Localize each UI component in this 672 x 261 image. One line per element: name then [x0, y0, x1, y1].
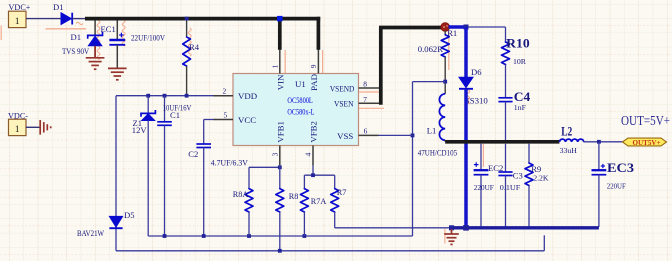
- capacitor C2: [204, 119, 214, 121]
- capacitor C1: [164, 96, 166, 122]
- resistor R8A: [248, 167, 250, 188]
- wire switch node thick blue: [464, 27, 468, 78]
- svg-text:1nF: 1nF: [514, 103, 527, 112]
- node C1 junction: [163, 94, 167, 98]
- svg-text:SS310: SS310: [465, 96, 488, 105]
- svg-text:BAV21W: BAV21W: [77, 229, 104, 238]
- ground at TVS: [94, 46, 96, 58]
- wire R7 to ground: [335, 227, 452, 229]
- svg-text:2: 2: [223, 87, 227, 96]
- node VSS tap junction: [443, 80, 447, 84]
- svg-text:L1: L1: [427, 125, 437, 135]
- wire VDC+ to D1: [26, 18, 61, 20]
- svg-text:VSEN: VSEN: [334, 99, 354, 109]
- diode D5: [109, 216, 122, 227]
- svg-text:R8A: R8A: [233, 190, 249, 199]
- pin 3 VFB1: [279, 146, 281, 166]
- svg-text:7: 7: [363, 95, 367, 104]
- resistor R4: [185, 17, 189, 21]
- node VSS junction: [411, 134, 415, 138]
- svg-text:6: 6: [364, 126, 368, 135]
- pin 4 VFB2: [312, 146, 314, 166]
- svg-text:D6: D6: [471, 67, 482, 77]
- svg-text:D5: D5: [124, 210, 135, 220]
- inductor L1: [439, 94, 445, 140]
- inductor L2: [559, 139, 583, 142]
- node R8 bottom: [278, 249, 282, 253]
- node C1 bottom: [163, 234, 167, 238]
- wire VSS tap: [413, 81, 446, 83]
- pin 8 VSEND: [359, 87, 381, 89]
- svg-text:0.062R: 0.062R: [418, 45, 444, 54]
- svg-text:R10: R10: [506, 37, 530, 51]
- svg-text:VDD: VDD: [238, 91, 257, 101]
- pin 7 VSEN: [359, 102, 381, 104]
- svg-text:OC5800L: OC5800L: [287, 96, 312, 105]
- wire R8A top: [249, 166, 280, 168]
- wire D6 cathode thick blue: [464, 89, 468, 228]
- capacitor EC1: [116, 20, 118, 39]
- svg-text:R7A: R7A: [311, 197, 327, 206]
- zener Z1: [147, 96, 149, 114]
- node ground junction: [449, 225, 454, 230]
- svg-text:VDC+: VDC+: [9, 3, 31, 12]
- compile mask marks: [0, 26, 2, 41]
- TVS diode D1: [94, 20, 96, 35]
- svg-text:VCC: VCC: [238, 115, 256, 125]
- svg-text:R1: R1: [447, 28, 457, 38]
- wire PAD drop: [317, 17, 321, 50]
- svg-text:1: 1: [270, 64, 279, 68]
- wire VSS pin extension: [379, 134, 413, 136]
- port VDC- pin 1: [9, 119, 27, 135]
- node error marker: [441, 23, 450, 32]
- wire D5 branch: [115, 96, 117, 251]
- svg-text:10R: 10R: [513, 57, 527, 66]
- wire bottom rail riser: [543, 235, 545, 251]
- capacitor C3: [505, 144, 507, 172]
- svg-text:U1: U1: [295, 79, 306, 89]
- node EC3 junction: [597, 140, 601, 144]
- port OUT5V+: [623, 138, 667, 146]
- svg-text:R9: R9: [531, 164, 541, 174]
- svg-text:OUT5V+: OUT5V+: [633, 138, 661, 147]
- svg-text:C3: C3: [513, 170, 523, 180]
- pin 6 VSS: [359, 134, 379, 136]
- capacitor EC2: [480, 144, 482, 170]
- wire VDD rail: [116, 95, 214, 97]
- svg-text:9: 9: [309, 64, 318, 68]
- wire VSEND-VSEN to R1: [379, 28, 383, 105]
- node VFB1 junction: [278, 165, 282, 169]
- svg-text:2.2K: 2.2K: [533, 173, 549, 182]
- svg-text:22UF/100V: 22UF/100V: [131, 33, 165, 42]
- resistor R1: [444, 31, 446, 35]
- svg-text:TVS 90V: TVS 90V: [62, 46, 90, 56]
- pin 9 PAD: [317, 50, 319, 74]
- node C2 bottom: [202, 234, 206, 238]
- node R8A bottom: [247, 234, 251, 238]
- svg-text:R7: R7: [337, 188, 347, 197]
- diode D6: [459, 77, 473, 87]
- wire power ground bus: [452, 226, 599, 229]
- wire to R10: [466, 26, 506, 28]
- svg-text:4.7UF/6.3V: 4.7UF/6.3V: [211, 159, 248, 168]
- wire R1 top thick blue: [449, 25, 467, 29]
- svg-text:VFB2: VFB2: [309, 121, 319, 143]
- svg-text:1: 1: [15, 124, 20, 134]
- node switch ground junction: [463, 225, 469, 231]
- svg-text:3: 3: [270, 152, 279, 156]
- node R4 junction: [185, 94, 189, 98]
- svg-text:1: 1: [15, 16, 20, 26]
- svg-text:D1: D1: [71, 32, 82, 42]
- ground VDC- rotated: [39, 120, 41, 135]
- resistor R7: [334, 175, 336, 188]
- svg-text:OC580x-L: OC580x-L: [287, 107, 314, 116]
- wire feedback ground rail: [148, 235, 412, 237]
- svg-text:220UF: 220UF: [474, 183, 495, 192]
- svg-text:0.1UF: 0.1UF: [500, 183, 521, 192]
- capacitor EC3: [598, 142, 600, 170]
- svg-text:D1: D1: [53, 2, 64, 12]
- wire output thick black: [445, 140, 559, 144]
- svg-text:C4: C4: [514, 90, 531, 104]
- svg-text:VIN: VIN: [275, 74, 285, 90]
- svg-text:EC3: EC3: [607, 161, 634, 175]
- svg-text:12V: 12V: [132, 125, 148, 135]
- ground at EC1: [108, 67, 127, 69]
- wire VIN drop: [278, 19, 282, 50]
- svg-text:OUT=5V+: OUT=5V+: [621, 113, 670, 128]
- capacitor C4: [505, 65, 507, 98]
- node R7A bottom: [303, 234, 307, 238]
- pin 1 VIN: [279, 50, 281, 74]
- pin 5 VCC: [214, 119, 234, 121]
- wire L2 to port: [583, 141, 622, 143]
- svg-text:C2: C2: [188, 149, 198, 159]
- wire VDC- to ground: [26, 126, 40, 128]
- svg-text:R8: R8: [289, 192, 299, 201]
- svg-text:PAD: PAD: [309, 74, 319, 91]
- svg-text:VFB1: VFB1: [275, 121, 285, 143]
- port VDC+ pin 1: [9, 11, 27, 27]
- resistor R8: [279, 165, 281, 188]
- svg-text:R4: R4: [189, 42, 200, 52]
- svg-text:C1: C1: [170, 110, 180, 120]
- resistor R7A: [303, 175, 305, 188]
- node thick blue junction: [464, 25, 469, 30]
- wire VIN bus thick: [85, 17, 320, 21]
- svg-text:5: 5: [224, 110, 228, 119]
- wire VFB2 split: [312, 165, 314, 175]
- svg-text:4: 4: [304, 152, 313, 156]
- resistor R9: [528, 144, 530, 163]
- op-amp U1 OC5800L body: [233, 74, 359, 146]
- svg-text:VSEND: VSEND: [330, 83, 354, 93]
- pin 2 VDD: [214, 95, 234, 97]
- node VFB2 junction: [311, 173, 315, 177]
- svg-text:VSS: VSS: [337, 131, 353, 141]
- svg-text:47UH/CD105: 47UH/CD105: [418, 148, 457, 157]
- resistor R10: [505, 27, 507, 42]
- svg-text:220UF: 220UF: [607, 181, 627, 190]
- svg-text:33uH: 33uH: [560, 146, 578, 155]
- node Z1 junction: [146, 94, 150, 98]
- ground earth symbol: [451, 229, 453, 234]
- node VIN junction: [277, 16, 282, 21]
- wire D1 to VIN bus: [72, 18, 85, 20]
- svg-text:L2: L2: [561, 125, 572, 139]
- svg-text:EC1: EC1: [101, 24, 116, 34]
- svg-text:8: 8: [363, 80, 367, 89]
- wire bottom rail: [116, 250, 544, 252]
